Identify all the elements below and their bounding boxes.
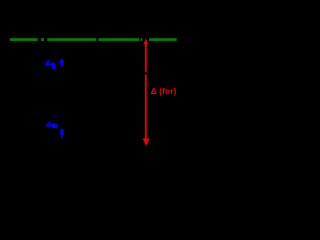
formation arrow stem lower (red) bbox=[145, 75, 147, 140]
label delta-1 subscript bbox=[52, 62, 56, 68]
label arrow-1 (blue blob with tail) bbox=[60, 59, 64, 66]
formation arrow top head bbox=[143, 38, 148, 44]
formation arrow bottom head bbox=[143, 138, 150, 146]
svg-text:Δ (for): Δ (for) bbox=[151, 86, 177, 96]
formation arrow stem upper (red) bbox=[145, 43, 147, 73]
elements level line segment 6 bbox=[149, 38, 177, 41]
label delta-2 triangle (blue) bbox=[45, 121, 53, 127]
elements level line segment 4 bbox=[99, 38, 140, 41]
elements level line segment 3 bbox=[47, 38, 96, 41]
elements level line segment 5 bbox=[141, 38, 143, 41]
elements level line (green), segment 1 bbox=[10, 38, 38, 41]
label delta-2 subscript bbox=[52, 123, 58, 128]
label arrow-2 (blue blob with tail) bbox=[60, 129, 64, 136]
label delta-1 triangle (blue) bbox=[44, 60, 51, 66]
elements level line segment 2 bbox=[41, 38, 44, 41]
